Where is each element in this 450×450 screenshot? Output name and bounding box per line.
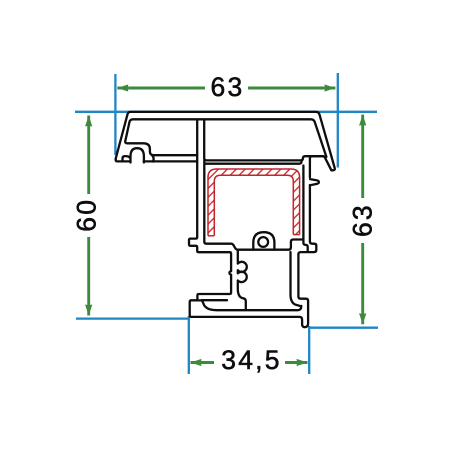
base cavity floor with S-curve bbox=[191, 300, 302, 310]
wire: blue left extension line (34,5) bbox=[188, 316, 190, 374]
omega channel inner arch bbox=[131, 148, 144, 162]
wire: blue left extension line (top 63) bbox=[114, 74, 116, 155]
dimension arrow 34,5 right bbox=[285, 361, 308, 364]
omega channel outer bbox=[125, 141, 197, 155]
cap inner top line bbox=[125, 119, 326, 157]
omega left foot bbox=[123, 156, 130, 161]
hook on right wall bbox=[310, 179, 319, 185]
dimension arrow 60 left upper bbox=[87, 116, 90, 195]
neck wavy inner left wall bbox=[238, 251, 247, 309]
svg-text:63: 63 bbox=[347, 203, 377, 237]
cap bottom edge left segment bbox=[116, 159, 131, 161]
steel left end cap bbox=[208, 235, 214, 237]
svg-text:60: 60 bbox=[72, 198, 102, 232]
omega right foot bbox=[152, 155, 154, 161]
wire: blue top reference line bbox=[75, 111, 377, 113]
dimension arrow 63 top right bbox=[248, 87, 335, 90]
main outer silhouette lower part bbox=[189, 121, 323, 328]
profile outline black bbox=[116, 112, 335, 327]
wire: blue right extension line (top 63) bbox=[337, 73, 339, 168]
wire: blue bottom-left reference line bbox=[76, 317, 189, 319]
steel U-channel outer contour bbox=[208, 169, 300, 236]
cap outer contour bbox=[116, 112, 335, 171]
steel reinforcement hatch fill bbox=[208, 169, 300, 236]
wire: blue right extension line (34,5) bbox=[308, 326, 310, 374]
wire: blue bottom-right reference line bbox=[309, 327, 378, 329]
dimension arrow 63 right lower bbox=[361, 243, 364, 324]
screw boss dome bbox=[253, 232, 274, 249]
steel right end cap bbox=[293, 234, 299, 236]
svg-text:34,5: 34,5 bbox=[221, 345, 281, 375]
steel U-channel inner contour bbox=[214, 175, 293, 236]
box top inner line bbox=[206, 162, 302, 164]
steel reinforcement outline U-channel bbox=[208, 169, 300, 236]
svg-text:63: 63 bbox=[211, 72, 245, 102]
base cavity top line bbox=[202, 299, 228, 301]
dimension arrow 34,5 left bbox=[191, 361, 215, 364]
neck inner right wall into base cavity bbox=[291, 252, 300, 306]
dimension arrow 63 right upper bbox=[361, 115, 364, 198]
box inner-left wall and floor bbox=[204, 160, 303, 250]
box inner right wall with step bbox=[303, 166, 307, 251]
dimension arrow 60 left lower bbox=[87, 237, 90, 316]
screw hole circle bbox=[258, 237, 268, 247]
dimension arrow 63 top left bbox=[117, 87, 205, 90]
cap bottom edge right segment bbox=[144, 160, 198, 162]
